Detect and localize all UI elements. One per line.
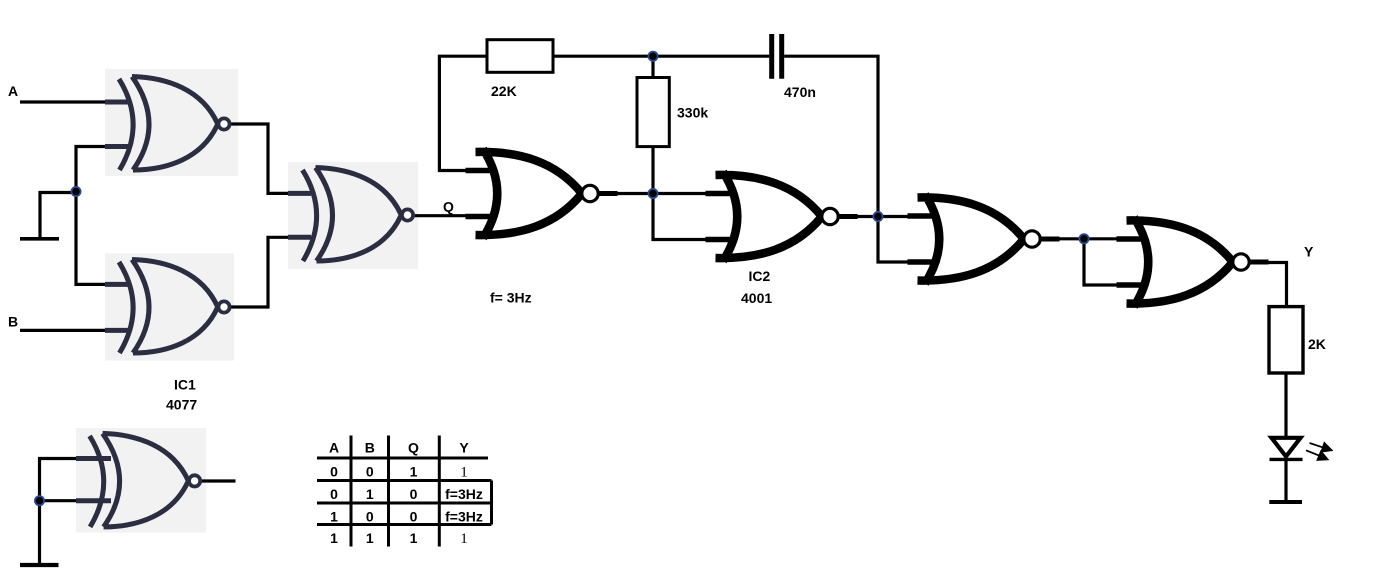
svg-text:4001: 4001 <box>741 290 772 306</box>
svg-text:1: 1 <box>460 531 468 547</box>
svg-text:0: 0 <box>366 508 374 524</box>
svg-text:1: 1 <box>410 464 418 480</box>
svg-text:Y: Y <box>1304 244 1314 260</box>
svg-text:B: B <box>8 314 18 330</box>
svg-text:f= 3Hz: f= 3Hz <box>490 290 532 306</box>
svg-text:0: 0 <box>330 486 338 502</box>
svg-text:Q: Q <box>408 439 419 455</box>
svg-text:IC1: IC1 <box>174 377 196 393</box>
svg-text:1: 1 <box>366 486 374 502</box>
svg-text:1: 1 <box>410 530 418 546</box>
svg-text:0: 0 <box>366 464 374 480</box>
svg-text:0: 0 <box>330 464 338 480</box>
svg-text:f=3Hz: f=3Hz <box>445 486 483 502</box>
svg-text:330k: 330k <box>677 105 708 121</box>
svg-text:A: A <box>8 83 18 99</box>
svg-text:1: 1 <box>330 508 338 524</box>
svg-text:0: 0 <box>410 508 418 524</box>
svg-text:1: 1 <box>366 530 374 546</box>
svg-text:4077: 4077 <box>166 397 197 413</box>
svg-text:1: 1 <box>330 530 338 546</box>
svg-text:1: 1 <box>460 465 468 481</box>
svg-text:470n: 470n <box>784 84 816 100</box>
svg-text:Q: Q <box>443 199 454 215</box>
svg-text:A: A <box>329 439 339 455</box>
svg-text:B: B <box>365 439 375 455</box>
svg-text:Y: Y <box>459 439 469 455</box>
svg-text:0: 0 <box>410 486 418 502</box>
svg-text:IC2: IC2 <box>749 268 771 284</box>
svg-text:2K: 2K <box>1308 336 1326 352</box>
svg-text:f=3Hz: f=3Hz <box>445 508 483 524</box>
svg-text:22K: 22K <box>491 83 517 99</box>
